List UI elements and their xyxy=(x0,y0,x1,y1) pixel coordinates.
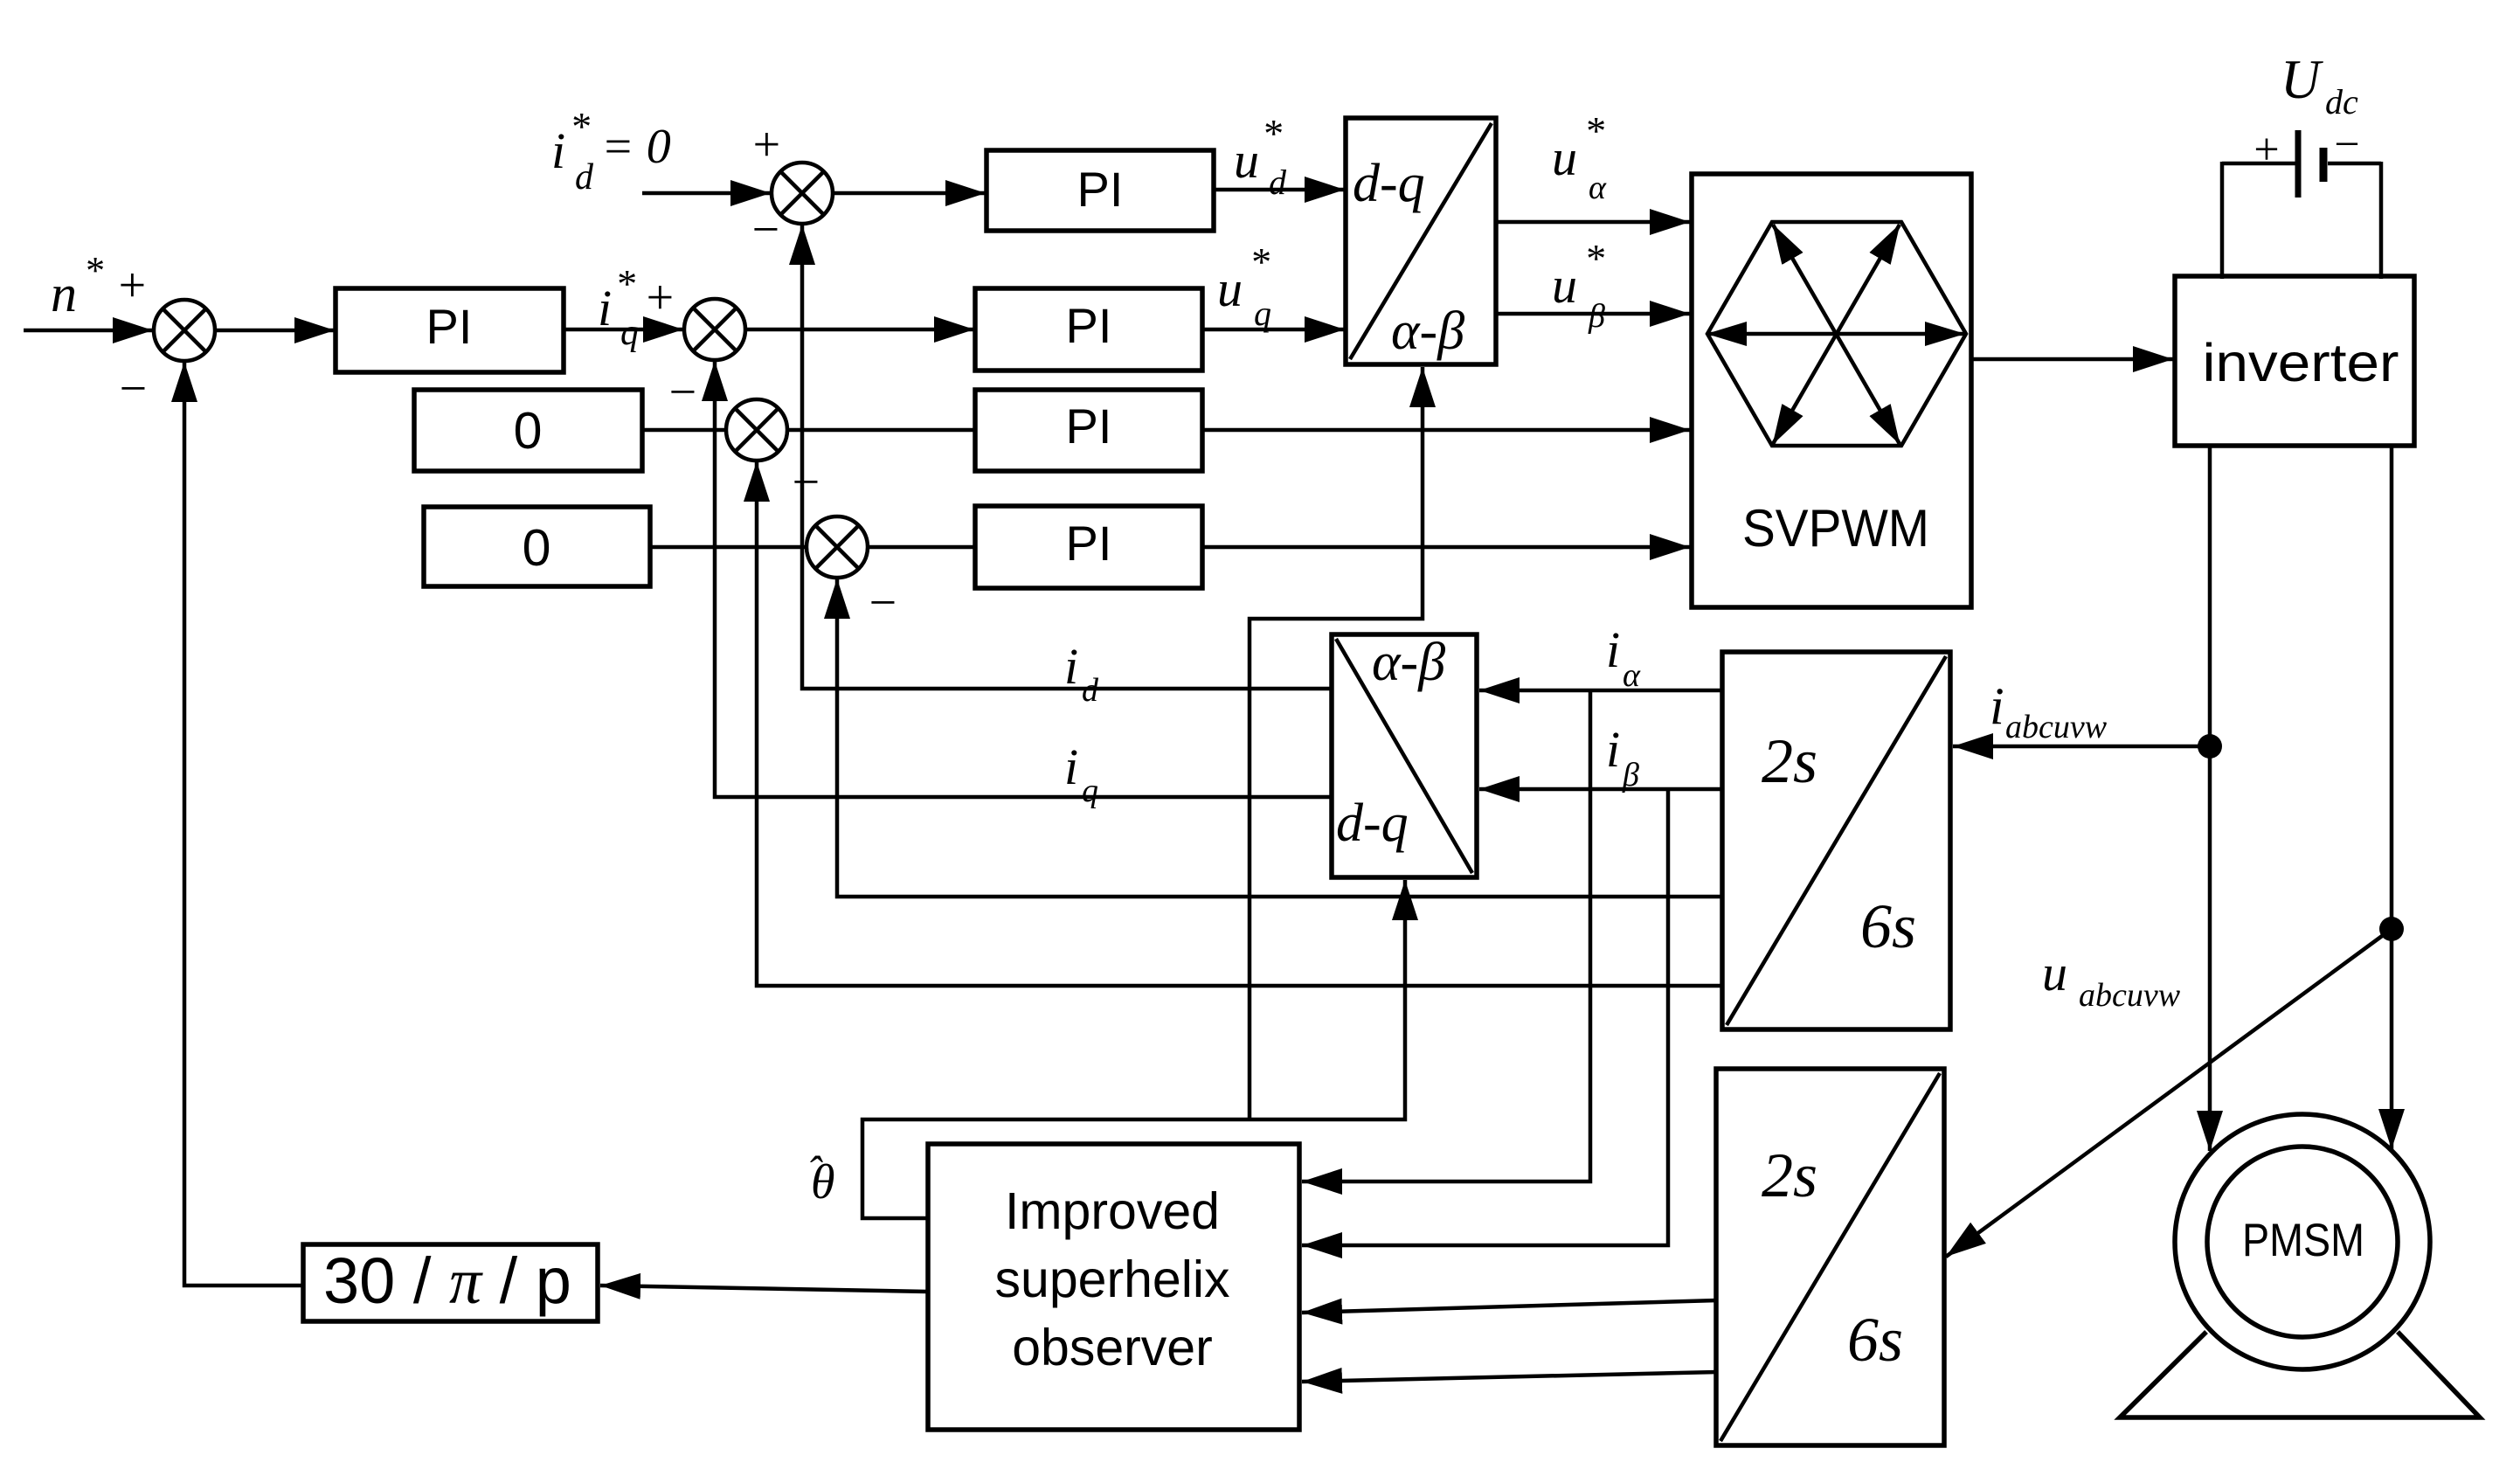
summing junction S5 xyxy=(772,163,833,224)
svg-text:+: + xyxy=(643,271,676,325)
motor PMSM xyxy=(2120,1114,2480,1417)
svg-text:6s: 6s xyxy=(1847,1305,1903,1375)
svg-text:α-β: α-β xyxy=(1391,301,1464,361)
wire i-alpha to ab-dq box xyxy=(1479,689,1722,693)
svg-text:+: + xyxy=(2251,125,2281,175)
wire z-current feedback to S4 xyxy=(837,579,1722,897)
svg-text:observer: observer xyxy=(1012,1319,1213,1376)
wire i-beta to ab-dq box xyxy=(1479,787,1722,792)
block 2s/6s current transform xyxy=(1722,652,1950,1029)
wire inverter phase right to PMSM xyxy=(2390,446,2394,1149)
junction voltage tap xyxy=(2379,917,2404,941)
summing junction S1 xyxy=(154,300,215,361)
svg-text:inverter: inverter xyxy=(2203,333,2399,392)
svg-text:6s: 6s xyxy=(1860,891,1916,961)
wire PI4 to SVPWM xyxy=(1202,545,1690,550)
block PI3 xyxy=(975,390,1202,471)
svg-text:0: 0 xyxy=(523,519,551,577)
wire S4 to PI4 xyxy=(868,545,975,550)
block PI d xyxy=(987,150,1214,231)
wire S5 to PI d xyxy=(833,191,986,196)
svg-text:PI: PI xyxy=(426,299,473,354)
svg-text:PI: PI xyxy=(1066,298,1112,353)
svg-text:Improved: Improved xyxy=(1005,1182,1220,1240)
svg-text:PI: PI xyxy=(1066,398,1112,454)
wire battery plus lead xyxy=(2220,162,2225,279)
wire PI d to dq box xyxy=(1214,188,1345,192)
block improved superhelix observer xyxy=(928,1144,1299,1430)
svg-text:30 / π / p: 30 / π / p xyxy=(323,1244,571,1318)
summing junction S4 xyxy=(807,516,868,578)
wire iq feedback to S2 xyxy=(715,361,1332,797)
wire i-beta tap to observer xyxy=(1302,789,1668,1245)
wire theta-hat loop to ab-dq box xyxy=(862,880,1405,1218)
wire SVPWM to inverter xyxy=(1971,357,2173,362)
block zero1 xyxy=(414,390,642,471)
wire n* input xyxy=(24,329,153,333)
wire dq box to SVPWM u-alpha xyxy=(1496,220,1690,225)
svg-text:α-β: α-β xyxy=(1372,633,1445,692)
svg-text:−: − xyxy=(116,362,149,416)
block PI speed xyxy=(336,288,564,372)
wire S3 to PI3 xyxy=(787,428,975,433)
svg-text:d-q: d-q xyxy=(1353,154,1425,213)
wire battery minus lead xyxy=(2379,162,2384,279)
block dq to alpha-beta transform xyxy=(1346,118,1496,364)
block 2s/6s voltage transform xyxy=(1716,1069,1944,1445)
summing junction S2 xyxy=(684,299,745,360)
wire u-beta to observer xyxy=(1302,1372,1717,1382)
svg-text:PMSM: PMSM xyxy=(2242,1215,2364,1266)
wire id*=0 input xyxy=(642,191,771,196)
svg-text:2s: 2s xyxy=(1762,726,1817,796)
wire id feedback to S5 xyxy=(802,225,1332,689)
block inverter xyxy=(2175,276,2414,446)
hexagon space vectors xyxy=(1707,222,1966,446)
block PI4 xyxy=(975,506,1202,588)
label theta-hat xyxy=(807,1147,835,1209)
wire S1 to PI speed xyxy=(215,329,335,333)
wire speed feedback to S1 xyxy=(184,362,303,1285)
wire observer to converter xyxy=(600,1285,928,1292)
svg-text:PI: PI xyxy=(1077,162,1124,217)
svg-text:0: 0 xyxy=(514,402,543,460)
battery Udc xyxy=(2222,130,2381,198)
wire zero2 to S4 xyxy=(650,545,807,550)
svg-text:−: − xyxy=(789,455,822,509)
svg-text:superhelix: superhelix xyxy=(995,1251,1230,1308)
block 30/pi/p converter xyxy=(303,1244,598,1321)
wire u_abcuvw to 2s/6s xyxy=(1946,929,2392,1257)
block alpha-beta to dq transform xyxy=(1332,633,1477,877)
svg-text:−: − xyxy=(749,203,782,257)
svg-text:+: + xyxy=(750,118,783,172)
wire zero1 to S3 xyxy=(642,428,726,433)
wire i_abcuvw to 2s/6s xyxy=(1953,745,2210,749)
wire inverter phase left to PMSM xyxy=(2208,446,2212,1151)
summing junction S3 xyxy=(726,399,787,461)
junction current tap xyxy=(2198,734,2222,759)
wire z-current feedback to S3 xyxy=(757,461,1722,986)
wire PI3 to SVPWM xyxy=(1202,428,1690,433)
svg-text:ˆ: ˆ xyxy=(807,1147,823,1195)
svg-text:−: − xyxy=(866,576,899,630)
wire PI speed to S2 xyxy=(564,328,683,332)
wire S2 to PI q xyxy=(745,328,974,332)
svg-text:2s: 2s xyxy=(1762,1140,1817,1210)
svg-text:−: − xyxy=(2331,120,2362,170)
wire dq box to SVPWM u-beta xyxy=(1496,312,1690,316)
block zero2 xyxy=(424,507,650,586)
wire u-alpha to observer xyxy=(1302,1300,1717,1313)
wire i-alpha tap to observer xyxy=(1302,690,1590,1182)
svg-text:PI: PI xyxy=(1066,516,1112,571)
svg-text:+: + xyxy=(115,259,149,313)
svg-text:d-q: d-q xyxy=(1336,793,1409,853)
block SVPWM xyxy=(1692,174,1971,607)
block PI q xyxy=(975,288,1202,371)
svg-text:SVPWM: SVPWM xyxy=(1742,499,1929,558)
svg-text:−: − xyxy=(666,365,699,419)
wire PI q to dq box xyxy=(1202,328,1345,332)
wire theta-hat branch to dq box xyxy=(1250,367,1423,1119)
